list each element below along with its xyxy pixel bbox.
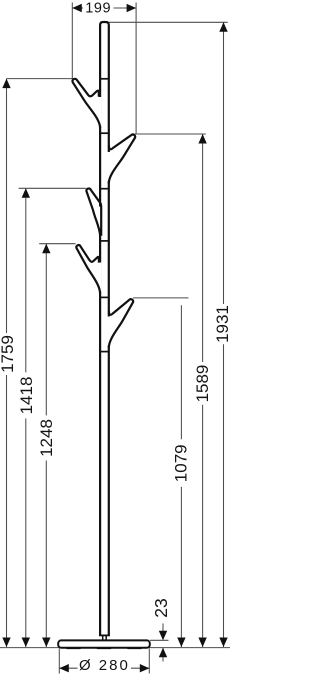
branch B1 (left hook) — [72, 79, 100, 128]
dim line 1248 — [45, 244, 47, 416]
arrow 1759 bottom — [2, 638, 10, 648]
arrow 1079 bottom — [177, 638, 185, 648]
dim line 1589 — [202, 134, 204, 362]
leader 1418 — [19, 187, 86, 189]
arrow 1931 top — [219, 22, 227, 32]
branch B2 (right hook) — [109, 134, 135, 183]
svg-text:1759: 1759 — [0, 335, 17, 373]
branch B3 eraser — [99, 207, 102, 235]
arrow 199 right — [127, 4, 137, 12]
dim line 1931 — [223, 22, 225, 304]
svg-text:1248: 1248 — [37, 419, 56, 457]
branch B3 (left hook) — [86, 189, 101, 236]
arrow d280 right — [140, 664, 150, 672]
pole bottom edge — [99, 634, 110, 636]
arrow 1248 top — [42, 244, 50, 254]
svg-text:1931: 1931 — [213, 305, 230, 343]
base top extension right — [150, 639, 169, 641]
leader 1759 — [7, 78, 73, 80]
svg-text:1589: 1589 — [193, 365, 212, 403]
branch B1 eraser — [99, 97, 102, 126]
svg-text:23: 23 — [151, 598, 171, 617]
extension line 199 left — [71, 3, 73, 80]
dim line 199 — [72, 7, 83, 9]
arrow 1248 bottom — [42, 638, 50, 648]
joint ticks — [100, 79, 109, 352]
dim line d280 — [59, 667, 77, 669]
branch B2 eraser — [108, 152, 111, 181]
arrow 23 up — [159, 648, 167, 658]
arrow 199 left — [72, 4, 82, 12]
svg-text:199: 199 — [85, 0, 111, 16]
tenon neck — [103, 635, 107, 640]
labels — [85, 0, 111, 16]
arrow 23 down — [159, 631, 167, 641]
dim line 1418 — [25, 188, 27, 372]
svg-text:1079: 1079 — [172, 444, 191, 482]
arrow d280 left — [59, 664, 69, 672]
branch B4 eraser — [99, 263, 102, 292]
extension line d280 right — [148, 649, 150, 674]
arrow 1589 bottom — [198, 638, 206, 648]
dim line 1079 — [180, 305, 182, 439]
arrow 1759 top — [2, 79, 10, 89]
extension line d280 left — [58, 649, 60, 674]
branch B4 (left hook) — [76, 245, 100, 294]
dim line 23 upper stub — [162, 624, 164, 633]
dim line 23 lower stub — [162, 648, 164, 662]
arrow 1418 bottom — [22, 638, 30, 648]
arrow 1931 bottom — [219, 638, 227, 648]
leader 1079 — [133, 297, 189, 299]
ground line — [0, 647, 230, 649]
branch B5 eraser — [108, 317, 111, 346]
svg-text:Ø 280: Ø 280 — [79, 657, 130, 674]
arrow 1589 top — [198, 134, 206, 144]
extension line 199 right — [135, 3, 137, 134]
branch B5 (right hook) — [109, 299, 133, 348]
leader 1931 — [109, 21, 228, 23]
leader 1248 — [39, 243, 75, 245]
dim line 1759 — [6, 79, 8, 333]
feet — [66, 647, 142, 649]
leader 1589 — [135, 133, 206, 135]
tree pole — [100, 22, 109, 636]
arrow 1418 top — [22, 188, 30, 198]
svg-text:1418: 1418 — [17, 377, 36, 415]
base plate — [58, 640, 150, 647]
